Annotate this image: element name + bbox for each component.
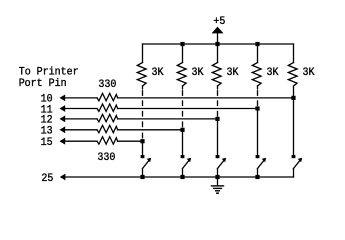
svg-text:330: 330: [97, 152, 115, 164]
svg-text:15: 15: [41, 137, 53, 149]
svg-text:3K: 3K: [303, 67, 315, 79]
svg-text:+5: +5: [213, 16, 225, 28]
svg-text:Port Pin: Port Pin: [19, 78, 67, 90]
svg-text:25: 25: [41, 173, 53, 185]
svg-text:3K: 3K: [267, 67, 279, 79]
svg-text:330: 330: [98, 79, 116, 91]
svg-text:13: 13: [41, 126, 53, 138]
svg-text:3K: 3K: [152, 67, 164, 79]
svg-text:3K: 3K: [192, 67, 204, 79]
svg-text:3K: 3K: [227, 67, 239, 79]
